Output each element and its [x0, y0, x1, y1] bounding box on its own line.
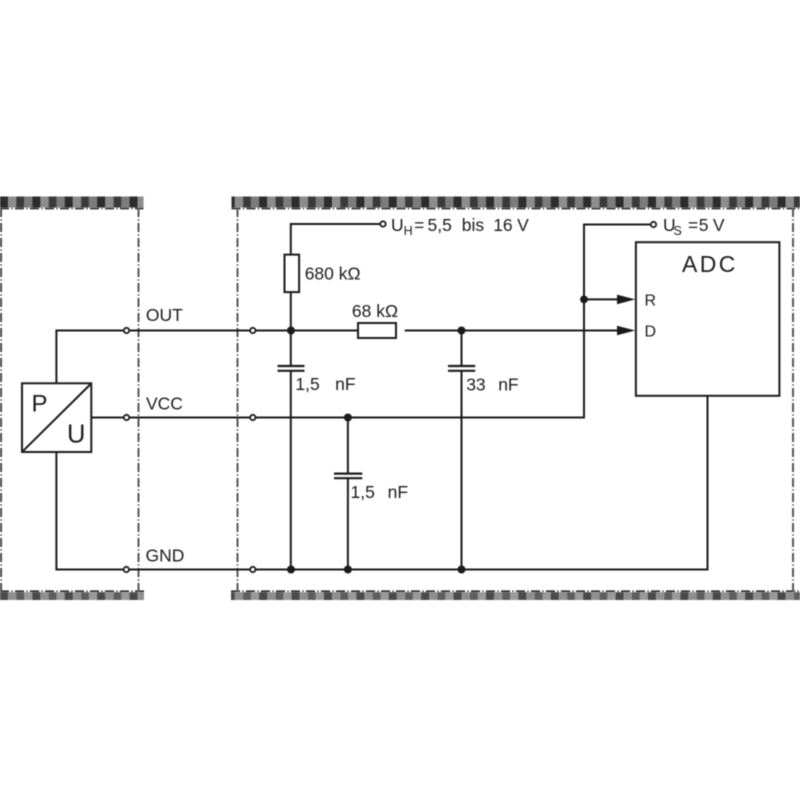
svg-text:1,5: 1,5 [295, 374, 319, 394]
svg-text:V: V [517, 215, 529, 235]
svg-text:=: = [414, 215, 424, 235]
svg-text:1,5: 1,5 [351, 482, 375, 502]
svg-text:nF: nF [388, 482, 408, 502]
svg-text:U: U [391, 215, 404, 235]
svg-text:S: S [674, 224, 682, 238]
svg-text:V: V [713, 215, 725, 235]
svg-text:=: = [688, 215, 698, 235]
svg-text:5,5: 5,5 [428, 215, 452, 235]
svg-text:680 kΩ: 680 kΩ [305, 264, 361, 284]
svg-text:R: R [645, 293, 657, 310]
svg-text:D: D [645, 323, 657, 340]
svg-text:bis: bis [462, 215, 485, 235]
svg-text:16: 16 [493, 215, 512, 235]
svg-text:OUT: OUT [146, 305, 183, 325]
svg-text:ADC: ADC [682, 251, 738, 277]
svg-text:33: 33 [466, 374, 485, 394]
svg-text:nF: nF [335, 374, 355, 394]
svg-text:68 kΩ: 68 kΩ [352, 301, 398, 321]
svg-text:P: P [32, 391, 48, 418]
svg-text:5: 5 [699, 215, 709, 235]
svg-text:U: U [67, 421, 85, 449]
svg-text:VCC: VCC [146, 393, 183, 413]
svg-text:nF: nF [498, 374, 518, 394]
svg-text:GND: GND [146, 545, 185, 565]
svg-text:H: H [404, 224, 413, 238]
